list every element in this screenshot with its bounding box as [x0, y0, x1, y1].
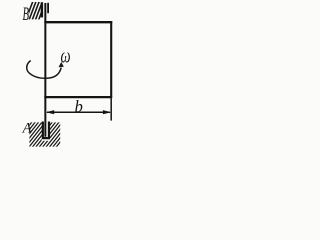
- svg-text:B: B: [23, 4, 30, 25]
- svg-text:A: A: [22, 121, 32, 137]
- svg-text:ω: ω: [61, 44, 71, 67]
- svg-text:b: b: [75, 97, 83, 116]
